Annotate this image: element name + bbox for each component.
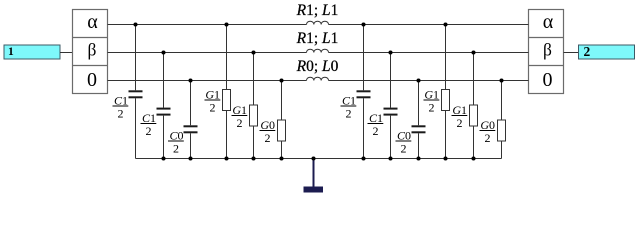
resistor G1/2 left-alpha [223,25,231,159]
label G0/2 right-zero [480,118,496,145]
junction beta B5 [252,51,256,55]
svg-text:2: 2 [373,124,379,138]
inductor R1;L1 alpha [307,21,329,24]
svg-text:C0: C0 [397,129,411,143]
svg-text:R1; L1: R1; L1 [296,30,339,47]
junction alpha B1 [134,23,138,27]
svg-text:2: 2 [401,142,407,156]
svg-text:G1: G1 [232,103,247,117]
label C0/2 right-zero [396,129,412,156]
capacitor C1/2 right-beta [384,53,398,159]
label C0/2 left-zero [168,129,184,156]
inductor R0;L0 zero [307,77,329,80]
junction alpha B4 [225,23,229,27]
capacitor C1/2 right-alpha [357,25,371,159]
svg-text:R0; L0: R0; L0 [296,58,339,75]
port 2 [579,44,635,59]
svg-text:2: 2 [118,107,124,121]
svg-text:α: α [87,11,98,33]
junction bus B3 [189,157,193,161]
svg-text:β: β [88,40,97,60]
svg-text:G0: G0 [480,118,495,132]
label G1/2 right-alpha [424,88,440,115]
svg-text:2: 2 [265,131,271,145]
svg-text:2: 2 [485,131,491,145]
inductor R1;L1 beta [307,49,329,52]
svg-text:2: 2 [346,107,352,121]
svg-text:R1; L1: R1; L1 [296,2,339,19]
svg-text:C1: C1 [342,94,356,108]
ground bus wire [136,158,502,160]
svg-text:2: 2 [237,116,243,130]
svg-text:G1: G1 [452,103,467,117]
wire beta line left segment [108,52,307,54]
wire zero line right segment [329,80,529,82]
svg-text:C0: C0 [169,129,183,143]
junction beta B11 [472,51,476,55]
label C1/2 right-alpha [341,94,357,121]
junction zero B6 [280,79,284,83]
svg-text:2: 2 [457,116,463,130]
resistor G1/2 left-beta [250,53,258,159]
junction beta B2 [162,51,166,55]
junction beta B8 [389,51,393,55]
wire alpha line left segment [108,24,307,26]
wire right block to port2 [564,52,579,54]
junction bus ground [312,157,316,161]
junction bus B9 [417,157,421,161]
junction bus B2 [162,157,166,161]
label G1/2 left-alpha [205,88,221,115]
capacitor C1/2 left-beta [157,53,171,159]
ground [304,159,324,193]
capacitor C0/2 left-zero [184,81,198,159]
wire zero line left segment [108,80,307,82]
svg-text:α: α [543,11,554,33]
label G1/2 right-beta [452,103,468,130]
svg-text:β: β [543,40,552,60]
resistor G0/2 right-zero [498,81,506,159]
junction alpha B7 [362,23,366,27]
junction bus B8 [389,157,393,161]
wire port1 to left block [60,52,73,54]
svg-text:C1: C1 [369,111,383,125]
transform block left U1 [73,10,108,94]
junction bus B10 [444,157,448,161]
resistor G1/2 right-alpha [442,25,450,159]
label C1/2 right-beta [368,111,384,138]
junction alpha B10 [444,23,448,27]
svg-text:2: 2 [429,101,435,115]
junction zero B3 [189,79,193,83]
svg-text:0: 0 [543,69,553,91]
svg-text:2: 2 [210,101,216,115]
svg-text:G1: G1 [424,88,439,102]
junction bus B11 [472,157,476,161]
label C1/2 left-alpha [113,94,129,121]
junction bus B5 [252,157,256,161]
svg-text:2: 2 [146,124,152,138]
label C1/2 left-beta [141,111,157,138]
wire alpha line right segment [329,24,529,26]
junction bus B6 [280,157,284,161]
svg-text:C1: C1 [114,94,128,108]
svg-text:1: 1 [8,46,14,58]
resistor G1/2 right-beta [470,53,478,159]
label G0/2 left-zero [260,118,276,145]
junction bus B7 [362,157,366,161]
port 1 [4,45,60,59]
resistor G0/2 left-zero [278,81,286,159]
junction bus B4 [225,157,229,161]
junction zero B9 [417,79,421,83]
svg-text:G1: G1 [205,88,220,102]
svg-text:2: 2 [584,44,591,59]
junction zero B12 [500,79,504,83]
label G1/2 left-beta [232,103,248,130]
svg-text:C1: C1 [142,111,156,125]
capacitor C1/2 left-alpha [129,25,143,159]
svg-text:G0: G0 [260,118,275,132]
svg-text:0: 0 [87,69,97,91]
wire beta line right segment [329,52,529,54]
capacitor C0/2 right-zero [412,81,426,159]
svg-text:2: 2 [173,142,179,156]
transform block right U2 [529,10,564,94]
